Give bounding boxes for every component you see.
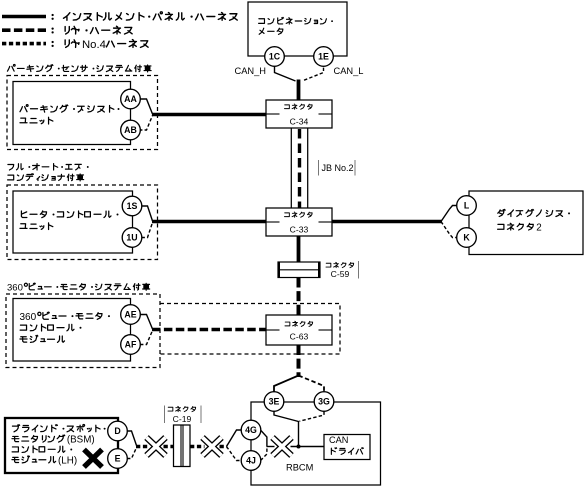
wire merge to splice [267, 446, 275, 448]
svg-text:C-33: C-33 [290, 224, 309, 234]
wire instrument panel harness to connector C-34 [152, 113, 266, 116]
JB No.2 left rail [290, 128, 292, 208]
connector C-63 pin ticks [266, 329, 280, 331]
svg-text:CAN: CAN [329, 435, 348, 445]
connector C-34 label [284, 104, 312, 109]
svg-text:C-19: C-19 [173, 414, 192, 424]
svg-text:CAN_L: CAN_L [334, 66, 364, 76]
connector C-59 label [326, 262, 354, 267]
connector C-63 box [266, 315, 332, 345]
label 360 view monitor system [24, 283, 149, 290]
connector C-33 label [284, 212, 312, 217]
heater control unit box [13, 191, 133, 253]
wire rear No.4 harness splice to RBCM merge (thick dotted) [220, 445, 228, 448]
JB No.2 right rail [307, 128, 309, 208]
pin K [457, 228, 477, 248]
wire splice to CAN driver [291, 446, 325, 448]
wire 1S to merge [142, 206, 153, 221]
label full auto air conditioner [8, 164, 89, 170]
svg-text:(LH): (LH) [58, 455, 77, 466]
combination meter label [259, 17, 333, 24]
svg-text:4G: 4G [245, 425, 257, 435]
no-connection X mark in BSM box [84, 450, 102, 468]
connector C-19 symbol [174, 425, 191, 467]
blind spot monitoring control module box [5, 418, 118, 473]
svg-text:360: 360 [20, 312, 37, 323]
svg-text:AE: AE [124, 310, 136, 320]
connector C-19 label brackets [165, 406, 202, 424]
legend: rear harness label [51, 26, 132, 34]
wire merge to pin 4G [227, 430, 242, 447]
connector C-63 label [285, 321, 313, 326]
wire CAN_L from pin 1E (dashed) [302, 62, 324, 81]
connector C-33 box [266, 208, 332, 236]
wire instrument panel harness C-33 to diagnosis connector [332, 220, 442, 223]
pin AE [121, 305, 141, 325]
legend: rear No.4 harness line sample [2, 42, 46, 46]
svg-text:AB: AB [124, 125, 137, 135]
svg-text:K: K [463, 233, 470, 243]
CAN driver box [324, 435, 370, 460]
wire split to pin 3E [274, 376, 299, 393]
pin 1U [122, 228, 142, 248]
splice X on harness left of C-19 [147, 438, 166, 456]
wire rear harness inside JB No.2 (thick dashed) [298, 129, 301, 208]
legend: instrument panel harness line sample [2, 15, 46, 19]
pin 1S [122, 196, 142, 216]
pin AB [121, 120, 141, 140]
svg-text:C-63: C-63 [290, 331, 309, 341]
wire D to merge [127, 431, 137, 446]
svg-text:AA: AA [124, 94, 137, 104]
wire AF to merge (dashed) [140, 331, 153, 345]
pin AF [121, 335, 141, 355]
360 view option region (dashed) [6, 294, 160, 368]
wire to pin L [441, 206, 457, 222]
connector C-59 symbol [278, 262, 320, 278]
wire AE to merge [140, 315, 153, 330]
svg-text:L: L [464, 201, 470, 211]
wire rear No.4 harness BSM to C-19 (thick dotted) [136, 445, 149, 448]
svg-text:CAN_H: CAN_H [235, 66, 267, 76]
wire E to merge (dashed) [127, 448, 137, 459]
wire trunk C-33 to C-59 [297, 236, 301, 263]
wire 4J to splice (inside, dashed) [261, 447, 267, 461]
JB No.2 label brackets [319, 160, 356, 176]
wire 3E to junction [274, 412, 299, 447]
svg-text:1C: 1C [269, 52, 281, 62]
heater control unit label [21, 211, 118, 218]
wire rear No.4 harness C-19 to splice (thick dotted) [190, 445, 205, 448]
svg-text:C-59: C-59 [331, 269, 350, 279]
360 view monitor control module box [13, 299, 131, 362]
pin 1C [265, 47, 285, 67]
wire rear harness C-59 to C-63 (thick dashed) [297, 278, 301, 316]
svg-text:AF: AF [125, 340, 137, 350]
legend: instrument panel harness label [51, 12, 237, 20]
legend: rear No.4 harness label [51, 40, 148, 48]
wire trunk meter to C-34 [297, 80, 301, 101]
svg-text:3G: 3G [318, 397, 330, 407]
BSM module label [12, 424, 105, 431]
parking assist unit label [20, 105, 120, 113]
svg-text:1U: 1U [126, 233, 137, 243]
360 view option region extension around C-63 (dashed) [160, 304, 340, 355]
pin 3E [264, 392, 284, 412]
wire rear harness C-63 down to split (thick dashed) [297, 345, 301, 377]
legend: rear harness line sample [2, 28, 46, 32]
svg-text:D: D [114, 426, 120, 436]
pin E [108, 449, 128, 469]
svg-text:(BSM): (BSM) [67, 435, 95, 446]
svg-text:1E: 1E [318, 52, 329, 62]
wire 1U to merge (dashed) [142, 223, 153, 238]
svg-text:E: E [115, 454, 121, 464]
pin 1E [314, 47, 334, 67]
svg-text:C-34: C-34 [290, 116, 309, 126]
junction dot [297, 445, 301, 449]
splice X on harness right of C-19 [203, 438, 222, 456]
wire split to pin 3G (dashed) [299, 376, 325, 393]
wire AA to merge [139, 99, 153, 114]
pin L [457, 196, 477, 216]
pin 4G [241, 420, 261, 440]
connector C-34 box [266, 100, 332, 128]
svg-text:RBCM: RBCM [286, 462, 313, 472]
wire 4G to splice (inside) [261, 430, 267, 447]
connector C-33 pin ticks [266, 221, 280, 223]
360 view monitor control module label [38, 312, 110, 319]
pin 4J [241, 451, 261, 471]
diagnosis connector 2 box [469, 191, 583, 255]
svg-text:4J: 4J [246, 456, 256, 466]
parking sensor option region (dashed) [7, 76, 158, 150]
svg-text:No.4: No.4 [82, 39, 106, 51]
full auto A/C option region (dashed) [7, 185, 158, 260]
pin D [108, 421, 128, 441]
svg-text:360: 360 [7, 282, 23, 293]
wire rear No.4 harness into C-19 (thick dotted) [164, 445, 174, 448]
wire merge to pin 4J (dashed) [227, 447, 242, 461]
combination meter box [248, 2, 347, 56]
connector C-34 pin ticks [266, 113, 280, 115]
pin 3G [314, 392, 334, 412]
svg-text:3E: 3E [269, 397, 280, 407]
label parking sensor system [7, 64, 151, 71]
wire 3G to junction (dashed) [300, 412, 325, 422]
connector C-59 label bracket [358, 261, 360, 279]
connector C-19 label [168, 406, 196, 411]
wire CAN_H from pin 1C [275, 62, 296, 81]
wire AB to merge (dashed) [139, 116, 153, 131]
svg-text:1S: 1S [127, 201, 138, 211]
svg-text:JB No.2: JB No.2 [322, 163, 354, 173]
RBCM box [251, 402, 381, 485]
svg-text:2: 2 [536, 222, 541, 233]
splice X inside RBCM [273, 438, 292, 456]
wire instrument panel harness to connector C-33 [152, 220, 266, 223]
diagnosis connector 2 label [498, 209, 570, 216]
wire to pin K (dashed) [441, 222, 457, 238]
parking assist unit box [13, 82, 131, 145]
wire rear harness to connector C-63 (thick dashed) [152, 328, 266, 331]
pin AA [121, 89, 141, 109]
